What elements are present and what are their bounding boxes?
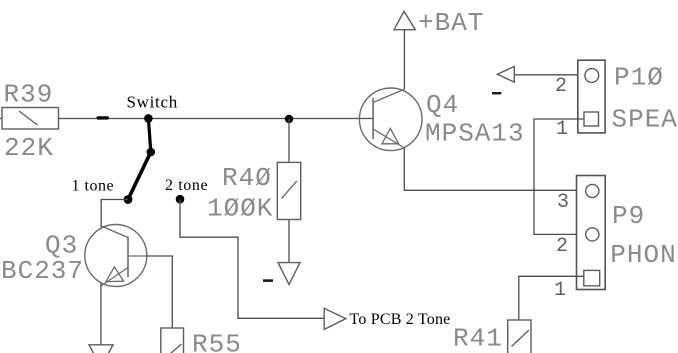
svg-text:1: 1 xyxy=(554,279,566,302)
wire: P9 pin 1 to R41 xyxy=(519,276,584,320)
off-page arrow at P10 pin 2 xyxy=(497,67,514,83)
wire: main horizontal net from R39 to Q4 base xyxy=(0,118,374,120)
svg-text:1ØØK: 1ØØK xyxy=(207,194,273,224)
label 1 tone xyxy=(72,178,115,195)
svg-text:R4Ø: R4Ø xyxy=(222,163,272,193)
svg-text:+BAT: +BAT xyxy=(418,8,484,38)
label 2 tone xyxy=(165,177,208,194)
Q3 value label BC237 xyxy=(1,256,84,286)
junction dot: switch common on main wire xyxy=(144,114,153,123)
Q3 reference label xyxy=(45,231,78,261)
R41 reference label xyxy=(453,324,503,353)
net label - (minus) at P10 arrow xyxy=(492,92,501,94)
wire: P10 pin 1 to P9 pin 2 xyxy=(534,119,585,234)
P10 pin 1 number xyxy=(556,118,568,141)
switch pole dot xyxy=(147,148,156,157)
svg-text:BC237: BC237 xyxy=(1,256,84,286)
svg-text:PHON: PHON xyxy=(610,240,676,270)
svg-text:2: 2 xyxy=(556,235,568,258)
P9 pin 2 number xyxy=(556,235,568,258)
node 1 tone (dot) xyxy=(124,195,133,204)
wire: Q3 emitter to ground xyxy=(100,284,102,345)
P10 name label SPEAKER xyxy=(612,105,678,135)
resistor R39 xyxy=(2,108,59,130)
svg-text:SPEAK: SPEAK xyxy=(612,105,678,135)
resistor R41 xyxy=(508,320,531,353)
svg-text:3: 3 xyxy=(557,191,569,214)
junction dot at R40 top xyxy=(285,115,293,123)
svg-text:2 tone: 2 tone xyxy=(165,177,208,194)
resistor R40 xyxy=(277,162,300,219)
svg-text:MPSA13: MPSA13 xyxy=(425,119,525,149)
wire: arrow to P10 pin 2 xyxy=(514,74,585,76)
Q4 value label MPSA13 xyxy=(425,119,525,149)
connector P9 xyxy=(577,176,606,290)
R39 reference label xyxy=(4,80,54,110)
label To PCB 2 Tone xyxy=(350,311,451,328)
P10 pin 2 number xyxy=(555,75,567,98)
transistor Q4 xyxy=(359,88,422,151)
net label - (minus tick) on main wire xyxy=(97,116,110,119)
P10 reference label xyxy=(614,63,664,93)
transistor Q3 xyxy=(85,225,147,287)
wire: junction to R40 xyxy=(288,119,290,162)
label Switch xyxy=(127,93,178,112)
svg-text:1: 1 xyxy=(556,118,568,141)
svg-text:22K: 22K xyxy=(4,133,54,163)
off-page connector arrow To PCB 2 Tone xyxy=(324,308,346,329)
resistor R55 xyxy=(161,328,184,353)
R40 value label 100K xyxy=(207,194,273,224)
svg-text:Switch: Switch xyxy=(127,93,178,112)
R55 reference label xyxy=(192,330,242,353)
power symbol +BAT xyxy=(394,11,415,29)
svg-text:To PCB 2 Tone: To PCB 2 Tone xyxy=(350,311,451,328)
wire: 2 tone node to off-page arrow xyxy=(180,199,324,318)
ground symbol under R40 xyxy=(278,263,300,285)
R40 reference label xyxy=(222,163,272,193)
P9 name label PHONE xyxy=(610,240,676,270)
wire: 1 tone node to Q3 base xyxy=(101,200,128,228)
P9 reference label xyxy=(612,201,645,231)
Q4 reference label xyxy=(426,90,459,120)
wire: Q4 emitter to P9 pin 3 xyxy=(404,148,585,191)
svg-text:1 tone: 1 tone xyxy=(72,178,115,195)
connector P10 xyxy=(578,60,605,133)
svg-text:2: 2 xyxy=(555,75,567,98)
wire: R40 to ground xyxy=(288,220,290,263)
label +BAT xyxy=(418,8,484,38)
svg-text:R41: R41 xyxy=(453,324,503,353)
svg-text:P1Ø: P1Ø xyxy=(614,63,664,93)
switch arm (thick lines) xyxy=(128,118,151,199)
node 2 tone (dot) xyxy=(176,195,185,204)
svg-text:R39: R39 xyxy=(4,80,54,110)
P9 pin 3 number xyxy=(557,191,569,214)
wire: Q4 collector to +BAT xyxy=(403,30,405,89)
svg-text:Q4: Q4 xyxy=(426,90,459,120)
ground symbol under Q3 xyxy=(89,345,113,353)
P9 pin 1 number xyxy=(554,279,566,302)
svg-text:R55: R55 xyxy=(192,330,242,353)
net label - (minus) at R40 ground xyxy=(263,279,273,282)
svg-text:P9: P9 xyxy=(612,201,645,231)
wire: Q3 collector to R55 xyxy=(147,256,172,328)
R39 value label 22K xyxy=(4,133,54,163)
